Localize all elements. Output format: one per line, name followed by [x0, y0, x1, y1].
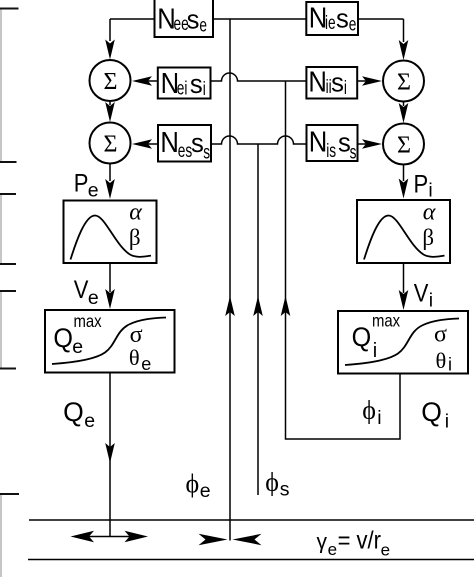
svg-text:e: e [199, 14, 207, 36]
wire stub N_es to sum2 arrow [148, 143, 159, 145]
svg-text:s: s [190, 68, 203, 99]
arrowhead up on phi_i line [281, 296, 291, 316]
svg-text:Q: Q [63, 397, 84, 427]
svg-text:ϕ: ϕ [362, 396, 376, 425]
svg-text:s: s [350, 141, 357, 163]
svg-text:P: P [74, 169, 89, 197]
svg-text:ϕ: ϕ [265, 468, 279, 497]
svg-text:i: i [445, 410, 449, 432]
svg-text:Q: Q [421, 397, 442, 427]
svg-text:β: β [422, 225, 434, 250]
summation circle 1 (e from N_ee) [90, 60, 131, 101]
sigmoid curve i [345, 319, 459, 366]
svg-text:ie: ie [325, 12, 336, 34]
svg-text:Σ: Σ [397, 70, 411, 96]
arrowhead into sigmoid-i box [399, 290, 409, 310]
svg-text:P: P [414, 170, 429, 198]
box N_ii s_i [306, 67, 357, 99]
arrowhead into sum3 from N_ii [362, 76, 382, 86]
axon line lower [28, 559, 474, 561]
wire N_es to N_is with hops over phi_e and phi_i [211, 136, 307, 144]
svg-text:Q: Q [352, 324, 372, 353]
svg-text:γ: γ [317, 530, 328, 553]
box N_ie s_e [306, 2, 358, 35]
svg-text:Q: Q [53, 324, 73, 353]
wire sum4 to alpha box i [403, 165, 405, 182]
svg-text:i: i [377, 407, 381, 429]
summation circle 3 (i from N_ie) [383, 61, 424, 102]
svg-text:θ: θ [436, 348, 447, 373]
arrowhead up on phi_e line [225, 296, 235, 316]
box sigmoid Q_i [338, 311, 468, 374]
box N_es s_s [158, 125, 211, 162]
summation circle 2 (e from N_es) [90, 123, 131, 164]
svg-text:= v/r: = v/r [338, 526, 382, 554]
svg-text:e: e [141, 354, 151, 374]
arrowhead into sum1 from N_ei [132, 76, 152, 86]
svg-text:e: e [328, 540, 337, 559]
svg-text:e: e [349, 13, 357, 35]
wire sum3 to sum4 [403, 102, 405, 106]
wire N_ei to N_ii with hop over phi_e [211, 73, 307, 81]
arrowhead into sigmoid-e box [105, 289, 115, 309]
wire stub N_ei to sum1 arrow [148, 80, 158, 82]
arrowhead into alpha-i box [399, 179, 409, 199]
svg-text:Σ: Σ [104, 69, 118, 95]
arrowhead converging left into phi_e [233, 534, 262, 545]
alpha response curve e [71, 216, 152, 260]
arrowhead into sum2 from N_es [132, 139, 152, 149]
arrowhead up on phi_s line [253, 296, 263, 316]
svg-text:i: i [344, 77, 347, 99]
wire phi_e vertical [229, 19, 231, 541]
svg-text:α: α [423, 200, 436, 226]
wire alpha-i to sigmoid-i [403, 263, 405, 293]
svg-text:N: N [160, 126, 179, 159]
bracket 2 (left margin, alpha box) [0, 194, 2, 264]
arrowhead sum3 to sum4 [399, 103, 409, 123]
svg-text:σ: σ [130, 322, 143, 348]
svg-text:ϕ: ϕ [186, 469, 200, 498]
arrowhead right of Q_e propagation [125, 531, 149, 542]
bracket 4 (left margin, bottom) [0, 494, 2, 577]
wire stub N_is to sum4 arrow [358, 143, 367, 145]
svg-text:σ: σ [434, 322, 447, 348]
svg-text:β: β [129, 225, 141, 250]
svg-text:V: V [74, 276, 89, 304]
arrowhead converging right into phi_e [199, 534, 228, 545]
svg-text:e: e [72, 336, 83, 358]
svg-text:s: s [336, 3, 349, 34]
svg-text:e: e [88, 287, 99, 309]
box N_ei s_i [158, 68, 211, 99]
svg-text:Σ: Σ [104, 132, 118, 158]
svg-text:e: e [88, 179, 99, 201]
wire Q_e propagation double line [85, 536, 137, 538]
bracket 1 (left margin, top) [0, 9, 2, 163]
wire sum1 to sum2 [109, 101, 111, 105]
svg-text:V: V [414, 279, 429, 307]
bracket 3 (left margin, sigmoid box) [0, 291, 2, 369]
axon line upper [29, 519, 474, 521]
svg-text:max: max [74, 312, 102, 331]
svg-text:i: i [203, 78, 206, 100]
wire stub N_ii to sum3 arrow [358, 80, 367, 82]
svg-text:s: s [203, 141, 210, 163]
box N_is s_s [307, 125, 358, 161]
svg-text:is: is [326, 140, 336, 162]
arrowhead into sum1 from top [105, 40, 115, 60]
wire phi_s vertical [257, 144, 259, 495]
svg-text:e: e [84, 410, 95, 432]
svg-text:s: s [280, 479, 290, 501]
box sigmoid Q_e [45, 310, 175, 373]
svg-text:max: max [372, 311, 400, 330]
arrowhead on Q_e output line [105, 443, 115, 463]
wire Q_e output down to axon line [109, 373, 111, 537]
arrowhead left of Q_e propagation [71, 531, 95, 542]
svg-text:i: i [373, 340, 377, 362]
summation circle 4 (i from N_is) [383, 124, 424, 165]
box dendrite alpha-beta i [357, 200, 450, 263]
arrowhead into alpha-e box [105, 179, 115, 199]
box dendrite alpha-beta e [64, 201, 157, 264]
wire sum2 to alpha box e [109, 164, 111, 182]
alpha response curve i [364, 216, 445, 260]
svg-text:N: N [309, 125, 328, 158]
arrowhead into sum4 from N_is [362, 139, 382, 149]
wire from top bus down to sum 1 [109, 19, 111, 41]
wire top bus y=19 [110, 18, 404, 20]
svg-text:s: s [191, 127, 204, 158]
wire alpha-e to sigmoid-e [109, 263, 111, 292]
svg-text:i: i [448, 355, 452, 375]
svg-text:Σ: Σ [397, 133, 411, 159]
svg-text:θ: θ [129, 345, 140, 370]
arrowhead into sum3 from top [399, 40, 409, 60]
svg-text:e: e [381, 541, 390, 560]
svg-text:e: e [200, 480, 211, 502]
svg-text:α: α [129, 200, 142, 226]
arrowhead sum1 to sum2 [105, 102, 115, 122]
wire from top bus down to sum 3 [403, 19, 405, 42]
svg-text:N: N [308, 65, 327, 98]
svg-text:s: s [331, 67, 344, 98]
sigmoid curve e [52, 318, 166, 365]
svg-text:i: i [428, 179, 432, 201]
svg-text:ei: ei [177, 77, 188, 99]
box N_ee s_e [155, 0, 214, 37]
wire phi_i loop from sigmoid-i bottom [286, 81, 401, 439]
svg-text:s: s [187, 4, 200, 35]
svg-text:i: i [429, 289, 433, 311]
